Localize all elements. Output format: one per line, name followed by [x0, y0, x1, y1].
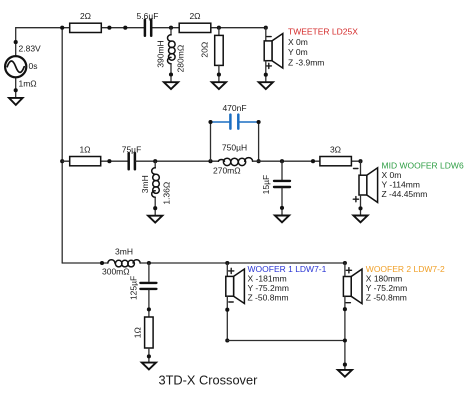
- ground below 3mH shunt: [148, 216, 162, 223]
- inductor 390mH 280mΩ (vertical coil): [168, 35, 176, 64]
- node dot 15µF shunt junction: [280, 159, 284, 163]
- ground below tweeter: [259, 82, 273, 89]
- node dot 3mH shunt bottom pin: [153, 206, 157, 210]
- voltage source V1 sine symbol: [7, 61, 24, 72]
- svg-text:Z -50.8mm: Z -50.8mm: [366, 293, 407, 303]
- node dot bus/top row junction: [60, 26, 64, 30]
- svg-text:WOOFER 2 LDW7-2: WOOFER 2 LDW7-2: [366, 264, 445, 274]
- node dot 390mH bottom pin: [169, 72, 173, 76]
- wire mid row left: [62, 160, 127, 162]
- wire 20Ω bottom lead: [218, 65, 220, 82]
- node dot 3mH series left pin: [100, 261, 104, 265]
- node dot mid speaker junction: [358, 159, 362, 163]
- svg-text:280mΩ: 280mΩ: [176, 45, 186, 73]
- speaker tweeter LD25X symbol: [264, 34, 283, 69]
- node dot tweeter top junction: [264, 26, 268, 30]
- wire 125µF top stub: [148, 263, 150, 281]
- node dot source top pin: [14, 40, 18, 44]
- svg-text:1mΩ: 1mΩ: [19, 79, 37, 89]
- wire 1Ω bottom lead: [148, 348, 150, 363]
- svg-text:Z -44.45mm: Z -44.45mm: [382, 189, 428, 199]
- svg-text:MID WOOFER LDW6: MID WOOFER LDW6: [382, 160, 464, 170]
- wire woofer2 bottom lead: [344, 296, 346, 370]
- node dot woofer2 bottom pin: [343, 307, 347, 311]
- node dot between 125µF and 1Ω: [147, 307, 151, 311]
- capacitor 125µF plates: [140, 283, 156, 289]
- voltage source V1 circle: [5, 56, 26, 77]
- speaker WOOFER 2 LDW7-2 symbol: [343, 269, 362, 304]
- node dot woofer1 lower corner: [225, 338, 229, 342]
- svg-text:Y -75.2mm: Y -75.2mm: [366, 283, 407, 293]
- capacitor 15µF plates: [274, 181, 290, 187]
- svg-text:3Ω: 3Ω: [330, 144, 341, 154]
- inductor 3mH 300mΩ (horizontal coil): [108, 260, 140, 267]
- wire tweeter bottom lead: [265, 61, 267, 82]
- wire 3mH shunt top stub: [154, 161, 156, 168]
- resistor 2Ω (top left): [70, 23, 102, 32]
- wire bottom row left: [62, 262, 108, 264]
- ground below mid speaker: [353, 216, 367, 223]
- svg-text:Y 0m: Y 0m: [288, 47, 308, 57]
- wire tweeter top stub: [265, 28, 267, 41]
- label woofer1 minus polarity: [229, 301, 233, 303]
- node dot parallel section right (mid row): [257, 159, 261, 163]
- svg-text:2Ω: 2Ω: [189, 11, 200, 21]
- capacitor 470nF plates (blue): [230, 115, 238, 129]
- node dot woofer1 top junction: [225, 261, 229, 265]
- node dot bottom bus right corner: [343, 338, 347, 342]
- svg-text:TWEETER LD25X: TWEETER LD25X: [288, 27, 358, 37]
- speaker WOOFER 1 LDW7-1 symbol: [226, 269, 245, 304]
- wire 125µF to 1Ω: [148, 290, 150, 317]
- svg-text:3mH: 3mH: [115, 247, 133, 257]
- wire 15µF top stub: [281, 161, 283, 179]
- svg-text:1Ω: 1Ω: [79, 144, 90, 154]
- node dot 15µF bottom pin: [280, 206, 284, 210]
- svg-text:390mH: 390mH: [155, 40, 165, 67]
- node dot source bottom pin: [14, 88, 18, 92]
- label woofer1 plus polarity: [229, 268, 234, 273]
- label tweeter minus polarity: [267, 36, 271, 38]
- svg-text:3mH: 3mH: [140, 175, 150, 193]
- svg-text:0s: 0s: [29, 61, 38, 71]
- wire mid speaker top stub: [360, 161, 362, 175]
- wire 15µF bottom lead: [281, 188, 283, 215]
- ground below 20Ω: [212, 82, 226, 89]
- node dot right of 2Ω resistor: [107, 26, 111, 30]
- svg-text:2.83V: 2.83V: [19, 44, 42, 54]
- wire 390mH top stub: [170, 28, 172, 35]
- label mid speaker minus polarity: [354, 168, 358, 170]
- inductor 3mH 1.36Ω (vertical coil): [152, 168, 160, 197]
- node dot tweeter bottom pin: [264, 73, 268, 77]
- svg-text:X -181mm: X -181mm: [248, 273, 287, 283]
- label woofer2 minus polarity: [346, 302, 350, 304]
- wire parallel section right riser: [258, 122, 260, 161]
- svg-text:Z -3.9mm: Z -3.9mm: [288, 57, 324, 67]
- svg-text:Y -75.2mm: Y -75.2mm: [248, 283, 289, 293]
- node dot 20Ω top junction: [217, 26, 221, 30]
- resistor 3Ω: [320, 157, 352, 166]
- svg-text:Z -50.8mm: Z -50.8mm: [248, 293, 289, 303]
- wire 3mH shunt bottom lead: [154, 197, 156, 216]
- capacitor 75µF plates: [129, 153, 135, 169]
- svg-text:15µF: 15µF: [261, 175, 271, 195]
- resistor 1Ω (vertical bottom): [145, 317, 154, 348]
- svg-text:75µF: 75µF: [122, 144, 142, 154]
- label mid speaker plus polarity: [353, 197, 358, 202]
- node dot 3mH shunt junction: [153, 159, 157, 163]
- wire top row right (5.6uF right plate to tweeter node): [152, 27, 265, 29]
- node dot ground pin woofer bus: [343, 363, 347, 367]
- node dot 390mH top junction: [169, 26, 173, 30]
- wire main left bus vertical: [61, 28, 63, 263]
- svg-text:2Ω: 2Ω: [80, 11, 91, 21]
- resistor 20Ω (vertical): [215, 35, 224, 65]
- label woofer2 plus polarity: [346, 268, 351, 273]
- wire top row left (source to 5.6uF left plate): [16, 27, 144, 29]
- speaker MID WOOFER LDW6 symbol: [359, 168, 378, 203]
- ground below 1Ω: [142, 363, 156, 370]
- node dot woofer1 bottom pin: [225, 308, 229, 312]
- svg-text:470nF: 470nF: [222, 103, 246, 113]
- wire bottom row right: [140, 262, 345, 264]
- node dot 125µF junction: [147, 261, 151, 265]
- wire 470nF right (blue): [240, 121, 259, 123]
- wire mid speaker bottom lead: [360, 195, 362, 216]
- ground at source: [9, 98, 23, 105]
- wire 20Ω top stub: [218, 28, 220, 36]
- wire 390mH bottom lead: [170, 64, 172, 82]
- svg-text:1.36Ω: 1.36Ω: [162, 182, 172, 205]
- svg-text:300mΩ: 300mΩ: [102, 267, 130, 277]
- node dot 3Ω left pin: [311, 159, 315, 163]
- capacitor 5.6µF plates: [145, 20, 151, 36]
- svg-text:WOOFER 1 LDW7-1: WOOFER 1 LDW7-1: [248, 264, 327, 274]
- wire woofer1 bottom lead: [226, 296, 228, 340]
- wire source bottom lead to ground: [15, 77, 17, 98]
- ground below 15µF: [275, 216, 289, 223]
- wire woofer2 top stub: [344, 263, 346, 277]
- svg-text:20Ω: 20Ω: [200, 42, 210, 58]
- wire parallel section left riser: [210, 122, 212, 161]
- svg-text:270mΩ: 270mΩ: [213, 166, 241, 176]
- label tweeter plus polarity: [266, 63, 271, 68]
- ground below woofer bus: [338, 370, 352, 377]
- wire woofer1 top stub: [226, 263, 228, 276]
- wire 470nF left (blue): [211, 121, 230, 123]
- svg-text:125µF: 125µF: [128, 276, 138, 300]
- resistor 2Ω (top middle): [179, 23, 211, 32]
- node dot woofer2 top junction: [343, 261, 347, 265]
- node dot mid speaker bottom pin: [358, 206, 362, 210]
- svg-text:750µH: 750µH: [222, 143, 247, 153]
- wire source top lead: [15, 28, 17, 57]
- node dot 470nF right pin: [257, 120, 261, 124]
- ground below 390mH: [164, 82, 178, 89]
- node dot parallel section left (mid row): [208, 159, 212, 163]
- node dot bus/mid row junction: [60, 159, 64, 163]
- svg-text:5.6µF: 5.6µF: [137, 11, 159, 21]
- inductor 750µH 270mΩ (horizontal coil): [218, 158, 252, 166]
- wire woofers bottom bus: [227, 340, 345, 342]
- svg-text:X 180mm: X 180mm: [366, 273, 402, 283]
- wire mid row third segment: [253, 160, 361, 162]
- svg-text:1Ω: 1Ω: [132, 327, 142, 338]
- svg-text:X 0m: X 0m: [288, 37, 308, 47]
- node dot 470nF left pin: [208, 120, 212, 124]
- node dot right of 1Ω: [107, 159, 111, 163]
- resistor 1Ω (mid row): [70, 157, 101, 166]
- node dot left pin of 5.6uF: [123, 26, 127, 30]
- node dot 1Ω bottom pin: [147, 354, 151, 358]
- svg-text:3TD-X Crossover: 3TD-X Crossover: [159, 372, 259, 387]
- node dot 20Ω bottom pin: [217, 73, 221, 77]
- wire mid row second segment: [136, 160, 219, 162]
